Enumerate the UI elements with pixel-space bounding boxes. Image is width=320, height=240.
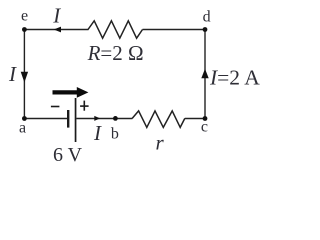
node e <box>22 27 27 32</box>
current arrow on left wire (pointing down) <box>21 72 28 83</box>
wire top-right (resistor R to d) <box>143 29 206 31</box>
svg-text:R=2 Ω: R=2 Ω <box>87 41 144 65</box>
svg-text:I: I <box>93 121 102 145</box>
wire right (c to d) <box>204 30 206 119</box>
current arrow on top wire (pointing left) <box>54 27 61 33</box>
wire bottom-middle (battery to b) <box>76 118 132 120</box>
battery negative plate (short) <box>67 110 69 128</box>
battery minus sign <box>51 106 60 108</box>
svg-text:r: r <box>156 131 165 155</box>
resistor R (zigzag, top) <box>88 21 143 38</box>
svg-text:d: d <box>203 9 211 26</box>
battery positive plate (long) <box>75 98 77 142</box>
svg-text:6 V: 6 V <box>53 144 83 166</box>
node c <box>203 116 208 121</box>
wire top-left (e to resistor R) <box>24 29 88 31</box>
node a <box>22 116 27 121</box>
current arrow on right wire (pointing up) <box>201 69 208 79</box>
wire bottom-left (a to battery) <box>24 118 67 120</box>
svg-text:b: b <box>111 126 119 143</box>
emf direction arrow (thick, above battery) <box>53 87 89 98</box>
svg-text:I=2 A: I=2 A <box>209 66 260 90</box>
resistor r (zigzag, bottom) <box>132 111 185 128</box>
node b <box>113 116 118 121</box>
node d <box>203 27 208 32</box>
svg-text:a: a <box>19 120 26 137</box>
wire bottom-right (resistor r to c) <box>185 118 205 120</box>
wire left (e to a) <box>23 30 25 119</box>
svg-text:e: e <box>21 8 28 25</box>
battery plus sign <box>80 105 89 107</box>
svg-text:I: I <box>8 62 17 86</box>
svg-text:c: c <box>201 119 208 136</box>
current arrow on bottom wire (pointing right) <box>94 116 100 121</box>
svg-text:I: I <box>52 3 61 27</box>
